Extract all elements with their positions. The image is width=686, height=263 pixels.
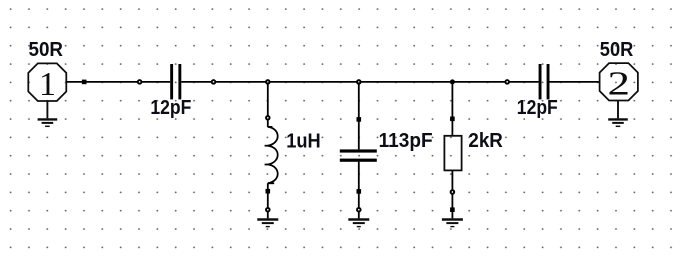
node C2 bottom — [357, 189, 362, 194]
wire C2 branch top — [358, 82, 360, 149]
node C1 left terminal — [138, 80, 142, 84]
wire C2 bottom to ground — [358, 162, 360, 219]
svg-text:1: 1 — [39, 66, 56, 103]
node L1 bottom — [266, 189, 271, 194]
wire L1 lead — [267, 120, 269, 127]
ground (P1) — [38, 101, 58, 126]
wire port1 to C1 — [66, 81, 170, 83]
node C1 right terminal — [212, 80, 216, 84]
svg-text:1uH: 1uH — [286, 131, 321, 153]
wire L1 branch top — [267, 82, 269, 116]
junction node (R1 branch) — [450, 79, 455, 84]
wire C1 to C3 — [181, 81, 538, 83]
junction node (L1 branch) — [266, 80, 270, 84]
port P2 — [600, 63, 638, 100]
svg-text:2kR: 2kR — [468, 130, 503, 152]
resistor R1 2kR — [444, 136, 461, 171]
node R1 bottom terminal — [451, 190, 455, 194]
wire C3 to port2 — [549, 81, 599, 83]
port P1 — [28, 63, 66, 101]
svg-text:50R: 50R — [600, 39, 634, 61]
node L1 top terminal — [266, 116, 270, 120]
capacitor C2 113pF — [340, 149, 377, 161]
node C3 left terminal — [505, 80, 509, 84]
wire L1 bottom to ground — [267, 183, 269, 218]
node R1 ground — [450, 207, 455, 212]
ground (R1) — [442, 220, 463, 227]
node (wire end after P1) — [82, 80, 87, 85]
node L1 ground terminal — [266, 208, 270, 212]
svg-text:50R: 50R — [29, 39, 64, 61]
capacitor C1 12pF — [170, 64, 181, 99]
junction node (C2 branch) — [357, 80, 361, 84]
ground (C2) — [348, 220, 369, 227]
ground (L1) — [257, 220, 278, 227]
wire R1 branch top — [451, 82, 453, 136]
node R1 top — [450, 117, 455, 122]
node C2 top — [357, 117, 362, 122]
ground (P2) — [608, 101, 628, 127]
svg-text:113pF: 113pF — [379, 130, 433, 152]
node C2 ground terminal — [357, 208, 361, 212]
svg-text:12pF: 12pF — [517, 97, 558, 119]
svg-text:2: 2 — [608, 66, 631, 103]
svg-text:12pF: 12pF — [150, 97, 191, 119]
wire R1 bottom to ground — [451, 170, 453, 218]
capacitor C3 12pF — [539, 64, 550, 99]
inductor L1 1uH — [265, 127, 278, 183]
